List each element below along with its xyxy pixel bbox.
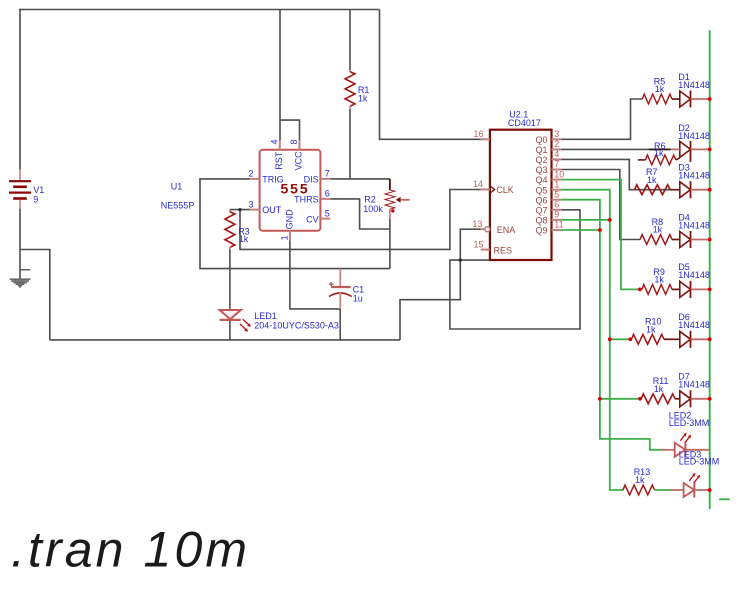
resistor R10 xyxy=(632,334,665,344)
svg-text:1k: 1k xyxy=(635,475,645,485)
svg-text:15: 15 xyxy=(473,239,483,249)
svg-text:9: 9 xyxy=(554,210,559,220)
diode D1 1N4148 xyxy=(680,91,691,107)
wire Q8 join xyxy=(561,219,610,221)
svg-text:OUT: OUT xyxy=(262,205,282,215)
U2 pin 9 Q8 xyxy=(552,219,562,221)
svg-text:GND: GND xyxy=(285,209,295,230)
svg-text:1N4148: 1N4148 xyxy=(678,171,710,181)
svg-text:6: 6 xyxy=(554,200,559,210)
U2 pin 11 Q9 xyxy=(552,229,562,231)
wire D7 row lead xyxy=(600,398,640,400)
junction RES-ENA xyxy=(459,258,462,261)
resistor R13 xyxy=(623,485,655,495)
resistor R8 xyxy=(640,235,672,245)
junction LED3 bus xyxy=(708,488,712,492)
junction D3 bus xyxy=(708,188,712,192)
U2 pin 13 ENA xyxy=(485,227,490,232)
svg-text:1N4148: 1N4148 xyxy=(678,220,710,230)
svg-text:CD4017: CD4017 xyxy=(508,118,541,128)
svg-text:9: 9 xyxy=(33,195,38,205)
junction D6 lead xyxy=(628,337,632,341)
svg-text:100k: 100k xyxy=(363,204,383,214)
resistor R1 xyxy=(349,70,351,72)
svg-text:8: 8 xyxy=(289,139,299,144)
svg-text:4: 4 xyxy=(554,149,559,159)
svg-text:Q4: Q4 xyxy=(535,175,547,185)
wire battery top xyxy=(19,9,21,170)
svg-text:LED-3MM: LED-3MM xyxy=(679,457,720,467)
diode D6 1N4148 xyxy=(680,331,691,347)
svg-text:Q6: Q6 xyxy=(535,195,547,205)
svg-text:Q5: Q5 xyxy=(535,185,547,195)
ground pin tick xyxy=(20,269,30,271)
svg-text:NE555P: NE555P xyxy=(161,200,195,210)
U2 pin 15 RES xyxy=(481,249,490,251)
battery V1 xyxy=(9,170,31,209)
junction D6 tap xyxy=(608,337,612,341)
wire green stub fragment xyxy=(719,498,730,500)
wire R3 to LED1 xyxy=(229,250,231,311)
svg-text:CV: CV xyxy=(306,214,319,224)
svg-text:CLK: CLK xyxy=(496,185,514,195)
svg-text:1k: 1k xyxy=(654,384,664,394)
svg-text:1N4148: 1N4148 xyxy=(678,80,710,90)
wire Q1 R6 overlap xyxy=(649,148,671,150)
svg-text:555: 555 xyxy=(281,181,310,197)
svg-text:U1: U1 xyxy=(171,181,183,191)
svg-text:16: 16 xyxy=(473,129,483,139)
svg-text:1N4148: 1N4148 xyxy=(678,131,710,141)
wire Q5 vertical xyxy=(561,190,623,490)
diode D2 1N4148 xyxy=(680,141,691,157)
wire LED2 anode lead xyxy=(660,449,674,451)
LED LED3 xyxy=(684,483,695,497)
svg-text:1N4148: 1N4148 xyxy=(678,270,710,280)
junction D7 tap xyxy=(598,397,602,401)
wire TRIG xyxy=(200,179,390,269)
svg-text:6: 6 xyxy=(325,189,330,199)
wire R1 top feed xyxy=(349,10,351,71)
svg-text:5: 5 xyxy=(554,189,559,199)
diode D7 1N4148 xyxy=(680,391,691,407)
U2 pin 16 VDD xyxy=(481,138,490,140)
svg-text:1N4148: 1N4148 xyxy=(678,380,710,390)
wire D6 row lead xyxy=(610,338,632,340)
svg-text:1: 1 xyxy=(554,179,559,189)
resistor R7 xyxy=(635,185,671,195)
wire top supply bus xyxy=(19,9,379,11)
wire R2 top dark lead xyxy=(389,179,391,190)
svg-text:RST: RST xyxy=(274,151,284,170)
U2 pin 2 Q1 xyxy=(552,148,562,150)
wire Q2 to R7 xyxy=(561,159,672,189)
op-amp U1 555 body xyxy=(260,150,321,231)
svg-text:1k: 1k xyxy=(654,148,664,158)
junction D4 bus xyxy=(708,238,712,242)
U2 pin 1 Q5 xyxy=(552,189,562,191)
svg-text:2: 2 xyxy=(554,139,559,149)
svg-text:1u: 1u xyxy=(353,294,363,304)
resistor R5 xyxy=(642,94,672,104)
counter U2.1 CD4017 body xyxy=(490,130,552,260)
svg-text:Q8: Q8 xyxy=(535,216,547,226)
svg-text:1k: 1k xyxy=(655,84,665,94)
U1 pin 1 GND xyxy=(289,231,291,241)
svg-text:Q2: Q2 xyxy=(535,155,547,165)
resistor R6 offset xyxy=(638,159,646,161)
U1 pin 4 RST xyxy=(279,140,281,149)
wire OUT to R3 xyxy=(230,209,250,211)
wire R2 bottom net xyxy=(389,219,391,269)
svg-text:1k: 1k xyxy=(358,94,368,104)
U2 pin 4 Q2 xyxy=(552,158,562,160)
U1 pin 3 OUT xyxy=(250,209,260,211)
svg-text:1k: 1k xyxy=(647,175,657,185)
U2 pin 5 Q6 xyxy=(552,199,562,201)
wire Q1 to D2 xyxy=(561,148,670,150)
svg-text:13: 13 xyxy=(472,219,482,229)
svg-text:Q3: Q3 xyxy=(535,165,547,175)
diode D5 1N4148 xyxy=(680,281,691,297)
junction Q9-Q6 xyxy=(598,228,602,232)
svg-text:V1: V1 xyxy=(33,185,44,195)
svg-text:Q1: Q1 xyxy=(535,145,547,155)
wire Q6 vertical xyxy=(561,200,660,450)
U2 pin 6 Q7 xyxy=(552,209,562,211)
R2 wiper arrow xyxy=(400,199,409,201)
wire battery negative down xyxy=(19,209,21,280)
wire DIS to R2 xyxy=(330,178,390,180)
ground xyxy=(10,279,31,287)
diode D3 1N4148 xyxy=(680,182,691,198)
svg-text:11: 11 xyxy=(554,220,563,230)
svg-text:Q9: Q9 xyxy=(535,226,547,236)
svg-text:3: 3 xyxy=(554,129,559,139)
junction D2 bus xyxy=(708,148,712,152)
svg-text:Q0: Q0 xyxy=(535,135,547,145)
LED LED2 xyxy=(675,443,686,457)
svg-text:Q7: Q7 xyxy=(535,205,547,215)
wire OUT to CLK xyxy=(240,190,481,250)
junction D5 lead xyxy=(638,288,642,292)
wire Q9 join xyxy=(561,229,600,231)
svg-text:7: 7 xyxy=(554,159,559,169)
wire RES net xyxy=(450,210,580,329)
wire RST feed xyxy=(279,10,281,141)
svg-text:VCC: VCC xyxy=(294,151,304,171)
U1 pin 8 VCC xyxy=(299,140,301,149)
wire R1 bottom to DIS xyxy=(349,109,351,179)
svg-text:4: 4 xyxy=(269,139,279,144)
svg-text:1k: 1k xyxy=(239,234,249,244)
svg-text:5: 5 xyxy=(325,208,330,218)
junction Q8-Q5 xyxy=(608,218,612,222)
svg-text:10: 10 xyxy=(554,169,564,179)
junction D7 lead xyxy=(638,397,642,401)
junction OUT branch xyxy=(238,208,241,211)
wire VDD pin16 feed xyxy=(380,10,481,140)
wire THRS xyxy=(330,199,390,229)
svg-text:1N4148: 1N4148 xyxy=(678,320,710,330)
wire VCC jog xyxy=(280,120,300,140)
U1 pin 5 CV xyxy=(320,218,330,220)
svg-text:1k: 1k xyxy=(653,225,663,235)
svg-text:14: 14 xyxy=(473,179,483,189)
resistor R2 trimmer xyxy=(385,190,395,209)
wire Q3 to R8 xyxy=(561,170,640,240)
wire green cathode bus xyxy=(709,30,711,509)
svg-text:RES: RES xyxy=(494,245,513,255)
svg-text:1: 1 xyxy=(279,235,289,240)
svg-text:.tran 10m: .tran 10m xyxy=(11,522,250,578)
wire Q4 to D5 row xyxy=(561,180,640,290)
U1 pin 2 TRIG xyxy=(250,178,260,180)
wire ground bus bottom xyxy=(50,339,400,341)
U2 pin 7 Q3 xyxy=(552,169,562,171)
wire LED1 cathode xyxy=(229,321,231,340)
resistor R3 xyxy=(229,210,231,212)
svg-text:204-10UYC/S530-A3: 204-10UYC/S530-A3 xyxy=(254,321,339,331)
wire ground to ENA xyxy=(400,229,481,340)
wire LED2 cathode xyxy=(685,449,709,451)
wire Q0 to R5 xyxy=(561,99,642,139)
U2 pin 10 Q4 xyxy=(552,179,562,181)
svg-text:1k: 1k xyxy=(654,275,664,285)
svg-text:ENA: ENA xyxy=(497,225,516,235)
capacitor C1 xyxy=(329,269,352,309)
svg-text:2: 2 xyxy=(248,169,253,179)
diode D4 1N4148 xyxy=(680,232,691,248)
R2 junction dot xyxy=(391,209,394,212)
U1 pin 6 THRS xyxy=(320,198,330,200)
U1 pin 7 DIS xyxy=(320,178,330,180)
wire ground branch xyxy=(20,250,50,340)
junction D5 bus xyxy=(708,288,712,292)
svg-text:7: 7 xyxy=(325,169,330,179)
wire GND pin1 down xyxy=(290,240,340,340)
junction D7 bus xyxy=(708,397,712,401)
wire LED3 cathode xyxy=(694,489,709,491)
junction D1 bus xyxy=(708,97,712,101)
junction D6 bus xyxy=(708,337,712,341)
resistor R11 xyxy=(641,394,675,404)
svg-text:1k: 1k xyxy=(646,324,656,334)
U2 pin 14 CLK xyxy=(481,189,490,191)
LED LED1 xyxy=(220,310,251,332)
U2 pin 3 Q0 xyxy=(552,138,562,140)
svg-text:LED-3MM: LED-3MM xyxy=(669,418,710,428)
svg-text:3: 3 xyxy=(248,199,253,209)
resistor R9 xyxy=(642,285,672,295)
svg-text:R2: R2 xyxy=(364,194,376,204)
